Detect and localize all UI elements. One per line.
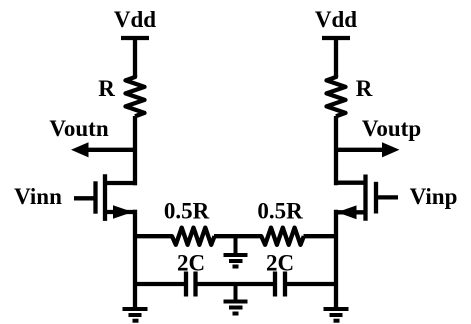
resistor 0.5R (right) [257, 199, 303, 245]
node Voutn output arrow [49, 116, 137, 157]
wire capacitor bus right segment [287, 282, 336, 286]
gate bar [93, 181, 97, 213]
power symbol Vdd (right) [315, 7, 357, 38]
wire Vdd bar to resistor R right [334, 38, 338, 77]
wire resistor bus left segment [135, 234, 172, 238]
node Voutp output arrow [334, 116, 421, 157]
svg-text:Voutn: Voutn [49, 116, 108, 141]
wire gate [74, 196, 94, 200]
resistor 0.5R (left) [164, 199, 215, 245]
wire source with arrow [105, 210, 137, 214]
svg-text:Vdd: Vdd [114, 7, 156, 32]
svg-text:Vdd: Vdd [315, 7, 357, 32]
wire source down to ground (right) [334, 210, 338, 310]
wire capacitor bus middle segment [198, 282, 274, 286]
ground (middle lower, between 2C capacitors) [224, 284, 248, 314]
svg-text:2C: 2C [177, 251, 205, 276]
ground (bottom left) [123, 309, 148, 321]
capacitor 2C (left) [177, 251, 205, 297]
resistor R (right) [327, 75, 373, 116]
resistor R (left) [98, 75, 144, 116]
ground (middle upper, between 0.5R resistors) [224, 236, 248, 267]
wire capacitor bus left segment [135, 282, 184, 286]
svg-text:R: R [98, 76, 115, 101]
wire resistor bottom to drain corner (right), node Voutp [334, 116, 338, 185]
wire gate [378, 195, 399, 199]
wire drain [105, 181, 137, 185]
wire resistor bus right segment [304, 234, 337, 238]
wire source down to ground (left) [133, 210, 137, 310]
gate bar [374, 182, 378, 214]
capacitor 2C (right) [266, 251, 294, 297]
wire source with arrow [334, 210, 366, 214]
transistor M2 (right NMOS) [334, 175, 398, 221]
wire resistor bottom to drain corner (left), node Voutn [133, 116, 137, 185]
ground (bottom right) [324, 309, 349, 321]
svg-text:Vinp: Vinp [410, 184, 458, 209]
wire drain [334, 181, 366, 185]
channel bar [103, 174, 107, 221]
svg-text:Voutp: Voutp [362, 116, 421, 141]
svg-text:R: R [356, 76, 373, 101]
svg-text:0.5R: 0.5R [257, 199, 303, 224]
svg-text:2C: 2C [266, 251, 294, 276]
channel bar [363, 175, 367, 221]
svg-text:0.5R: 0.5R [164, 199, 210, 224]
power symbol Vdd (left) [114, 7, 156, 38]
wire resistor bus middle segment [214, 234, 262, 238]
transistor M1 (left NMOS) [74, 174, 137, 221]
svg-text:Vinn: Vinn [14, 184, 62, 209]
wire Vdd bar to resistor R left [133, 38, 137, 77]
